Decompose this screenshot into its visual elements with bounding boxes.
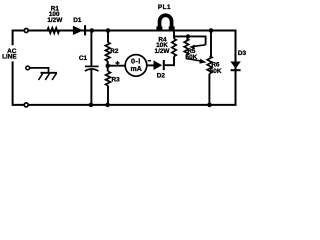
svg-text:PL1: PL1 bbox=[158, 4, 171, 11]
svg-text:D2: D2 bbox=[157, 72, 166, 79]
svg-text:C1: C1 bbox=[79, 55, 88, 62]
svg-text:0-I: 0-I bbox=[131, 57, 141, 66]
svg-text:50K: 50K bbox=[186, 54, 198, 61]
svg-text:LINE: LINE bbox=[2, 53, 17, 60]
svg-text:1/2W: 1/2W bbox=[47, 17, 63, 24]
svg-text:D3: D3 bbox=[238, 50, 247, 57]
svg-text:1/2W: 1/2W bbox=[155, 48, 171, 55]
svg-text:R3: R3 bbox=[112, 76, 121, 83]
svg-text:50K: 50K bbox=[210, 68, 222, 75]
svg-text:D1: D1 bbox=[73, 17, 82, 24]
svg-text:mA: mA bbox=[131, 66, 142, 73]
svg-text:R2: R2 bbox=[110, 48, 119, 55]
